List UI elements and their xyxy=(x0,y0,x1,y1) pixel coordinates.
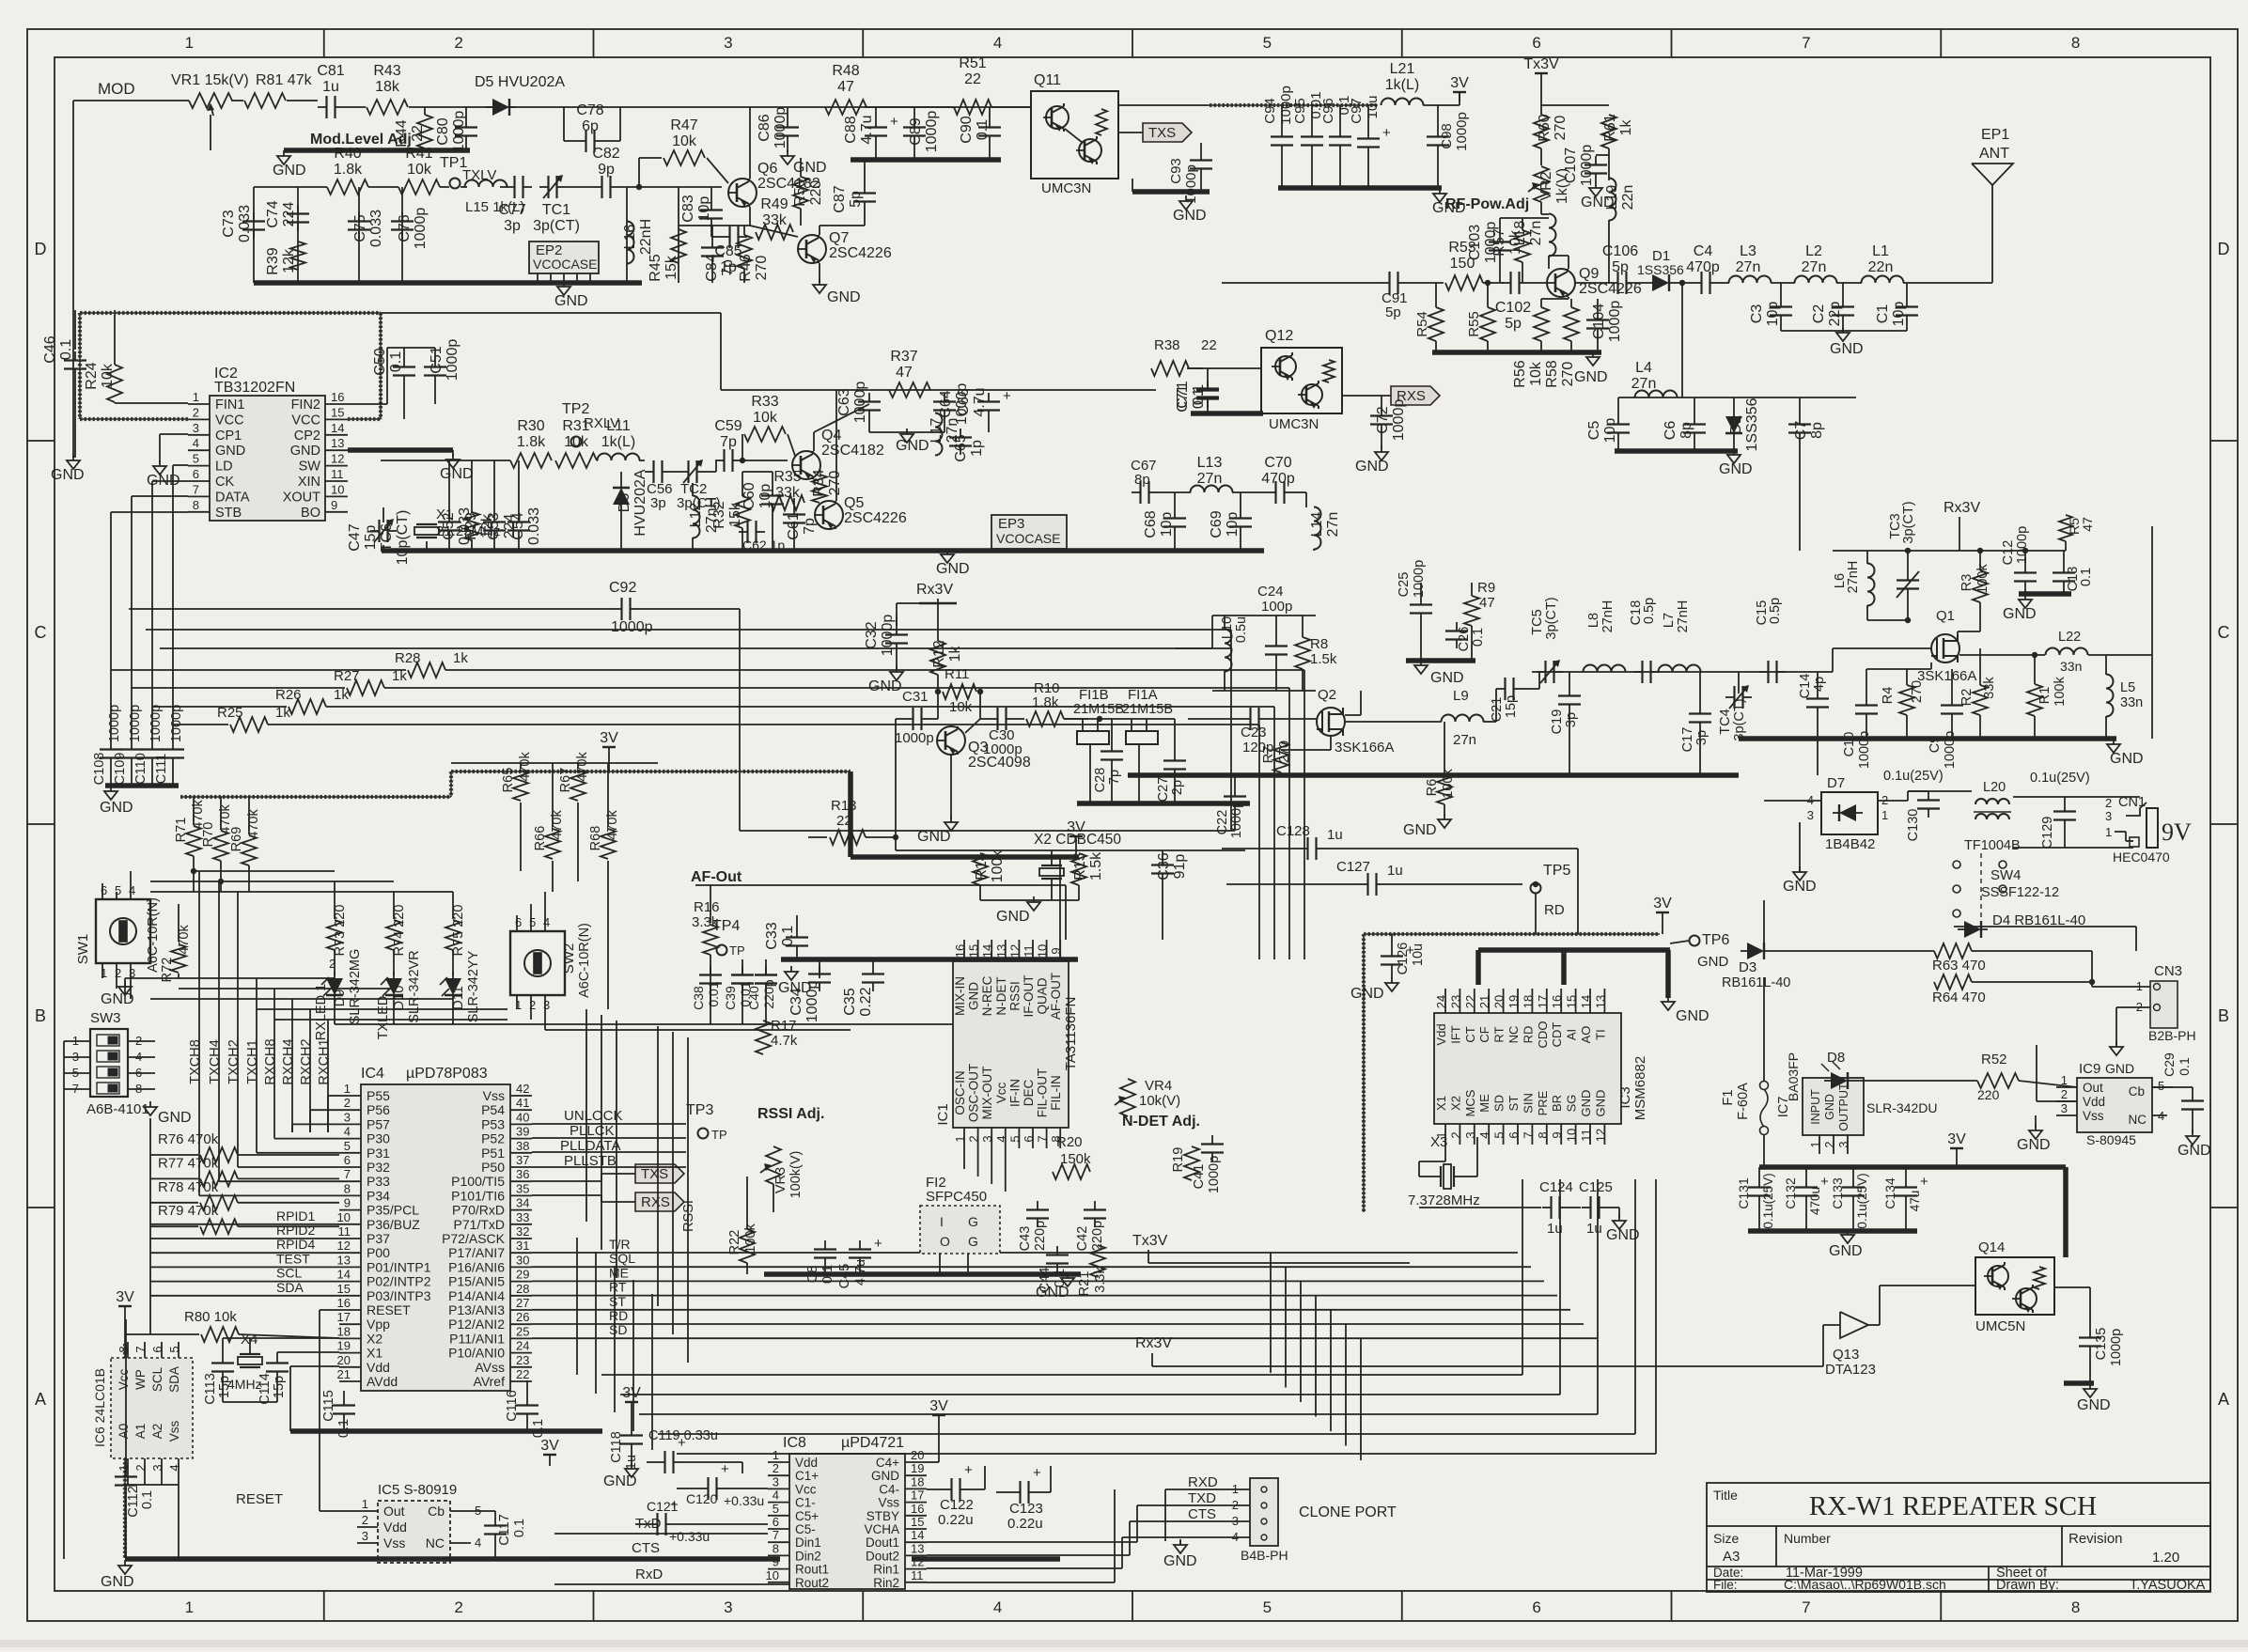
svg-text:NC: NC xyxy=(2129,1113,2147,1127)
svg-text:CLONE PORT: CLONE PORT xyxy=(1299,1504,1397,1520)
svg-text:C: C xyxy=(35,623,47,642)
svg-text:RX-W1 REPEATER SCH: RX-W1 REPEATER SCH xyxy=(1809,1491,2097,1521)
svg-text:CK: CK xyxy=(215,475,234,490)
svg-text:µPD4721: µPD4721 xyxy=(841,1435,904,1451)
svg-text:NC: NC xyxy=(426,1535,445,1551)
svg-text:P54: P54 xyxy=(481,1102,505,1117)
svg-text:C1+: C1+ xyxy=(795,1469,819,1483)
svg-text:30: 30 xyxy=(516,1253,529,1267)
svg-text:35: 35 xyxy=(516,1181,529,1195)
svg-text:8: 8 xyxy=(117,1346,131,1352)
svg-text:C38: C38 xyxy=(691,986,706,1010)
svg-text:GND: GND xyxy=(1579,1090,1593,1117)
svg-text:P12/ANI2: P12/ANI2 xyxy=(448,1317,505,1332)
svg-text:1: 1 xyxy=(515,998,522,1012)
svg-text:TP4: TP4 xyxy=(712,918,740,934)
svg-text:15k: 15k xyxy=(663,255,679,280)
svg-text:L4: L4 xyxy=(1635,360,1652,376)
svg-text:10p: 10p xyxy=(1891,302,1907,327)
svg-text:C3: C3 xyxy=(1749,304,1765,324)
svg-text:N-REC: N-REC xyxy=(980,975,994,1016)
svg-text:TxD: TxD xyxy=(635,1516,662,1532)
svg-text:1000p: 1000p xyxy=(1579,145,1595,187)
svg-text:17: 17 xyxy=(1536,995,1550,1008)
svg-text:TXS: TXS xyxy=(641,1166,668,1182)
svg-text:XIN: XIN xyxy=(298,475,320,490)
svg-text:1000p: 1000p xyxy=(804,981,820,1023)
svg-text:OSC-IN: OSC-IN xyxy=(953,1070,967,1114)
svg-text:FI1A: FI1A xyxy=(1128,687,1158,703)
svg-text:SG: SG xyxy=(1565,1095,1579,1113)
svg-text:SD: SD xyxy=(1492,1095,1506,1112)
svg-text:270: 270 xyxy=(754,256,770,281)
svg-text:5: 5 xyxy=(193,452,199,466)
svg-text:BR: BR xyxy=(1550,1095,1564,1112)
svg-text:Tx3V: Tx3V xyxy=(1523,56,1559,72)
svg-text:STB: STB xyxy=(215,506,242,521)
svg-text:9: 9 xyxy=(1550,1131,1564,1138)
svg-text:Size: Size xyxy=(1713,1531,1739,1546)
svg-text:1: 1 xyxy=(2105,825,2112,839)
svg-text:3p(CT): 3p(CT) xyxy=(1544,597,1559,639)
svg-text:L11: L11 xyxy=(606,418,631,434)
svg-text:GND: GND xyxy=(868,678,902,694)
svg-text:R70: R70 xyxy=(201,822,216,848)
svg-text:224: 224 xyxy=(281,202,297,227)
svg-text:1: 1 xyxy=(193,390,199,404)
svg-text:Rx3V: Rx3V xyxy=(916,582,953,598)
svg-text:Q4: Q4 xyxy=(821,428,841,444)
svg-text:C69: C69 xyxy=(1209,510,1225,538)
svg-text:C68: C68 xyxy=(1143,510,1159,538)
svg-text:C97: C97 xyxy=(1349,98,1365,124)
svg-text:18: 18 xyxy=(911,1474,924,1488)
svg-text:CDT: CDT xyxy=(1550,1022,1564,1048)
svg-text:470u: 470u xyxy=(1808,1187,1822,1215)
svg-text:R19: R19 xyxy=(1171,1147,1186,1173)
svg-text:R65: R65 xyxy=(501,768,516,793)
svg-text:C123: C123 xyxy=(1009,1501,1043,1517)
svg-text:1: 1 xyxy=(185,34,194,52)
svg-text:13: 13 xyxy=(994,944,1008,958)
svg-text:16: 16 xyxy=(331,390,344,404)
svg-text:R50: R50 xyxy=(792,179,808,206)
svg-text:2: 2 xyxy=(529,998,536,1012)
svg-text:4: 4 xyxy=(1232,1530,1239,1544)
svg-text:3: 3 xyxy=(1463,1131,1477,1138)
svg-text:270: 270 xyxy=(1910,680,1925,703)
svg-text:3p(CT): 3p(CT) xyxy=(1901,501,1916,543)
svg-text:12k: 12k xyxy=(281,248,297,273)
svg-text:0.033: 0.033 xyxy=(526,507,542,545)
svg-text:C19: C19 xyxy=(1550,709,1565,735)
svg-text:TP6: TP6 xyxy=(1702,932,1729,948)
svg-text:1B4B42: 1B4B42 xyxy=(1825,836,1875,852)
svg-text:7p: 7p xyxy=(720,259,736,276)
svg-text:IF-IN: IF-IN xyxy=(1007,1079,1022,1107)
svg-text:R45: R45 xyxy=(648,254,663,281)
svg-text:33n: 33n xyxy=(2060,659,2082,674)
svg-text:2SC4226: 2SC4226 xyxy=(829,245,892,261)
svg-text:GND: GND xyxy=(1697,954,1729,970)
svg-text:2: 2 xyxy=(454,1598,462,1616)
svg-text:3: 3 xyxy=(2105,809,2112,823)
svg-text:9: 9 xyxy=(773,1555,779,1569)
svg-text:470k: 470k xyxy=(177,925,192,955)
svg-text:150k: 150k xyxy=(1060,1151,1091,1167)
svg-text:1.8k: 1.8k xyxy=(517,434,546,450)
svg-text:C74: C74 xyxy=(265,200,281,227)
svg-text:X3: X3 xyxy=(1430,1134,1447,1150)
svg-text:C23: C23 xyxy=(1241,725,1267,740)
svg-text:C31: C31 xyxy=(902,689,929,705)
svg-text:10p: 10p xyxy=(1602,418,1618,444)
svg-text:19: 19 xyxy=(1506,995,1521,1008)
svg-text:+: + xyxy=(1003,388,1011,404)
svg-text:GND: GND xyxy=(554,293,588,309)
svg-text:Din1: Din1 xyxy=(795,1535,821,1550)
svg-text:XOUT: XOUT xyxy=(283,490,320,505)
svg-text:R47: R47 xyxy=(670,117,697,133)
svg-text:L12: L12 xyxy=(688,503,704,528)
svg-text:AVdd: AVdd xyxy=(367,1374,398,1389)
svg-text:1: 1 xyxy=(1881,808,1888,822)
svg-text:R60: R60 xyxy=(1537,114,1553,141)
svg-text:IFT: IFT xyxy=(1448,1025,1462,1044)
svg-text:100k(V): 100k(V) xyxy=(788,1151,804,1199)
svg-text:C52: C52 xyxy=(441,512,457,539)
svg-text:R75 220: R75 220 xyxy=(451,905,466,957)
svg-text:R13: R13 xyxy=(831,798,857,814)
svg-text:FIL-OUT: FIL-OUT xyxy=(1036,1068,1050,1118)
svg-text:P53: P53 xyxy=(481,1116,505,1131)
svg-text:14: 14 xyxy=(331,421,344,435)
svg-text:L22: L22 xyxy=(2058,630,2081,645)
svg-text:GND: GND xyxy=(1350,986,1384,1002)
svg-text:220: 220 xyxy=(1977,1087,2000,1102)
svg-text:1000p: 1000p xyxy=(1391,399,1407,442)
svg-text:3p: 3p xyxy=(504,218,521,234)
svg-text:R80 10k: R80 10k xyxy=(184,1309,237,1325)
svg-text:4.7u: 4.7u xyxy=(859,115,875,144)
svg-text:220: 220 xyxy=(808,180,824,206)
svg-text:14: 14 xyxy=(337,1268,351,1282)
svg-text:Tx3V: Tx3V xyxy=(1132,1233,1168,1249)
svg-text:DTA123: DTA123 xyxy=(1825,1362,1876,1378)
svg-text:C90: C90 xyxy=(959,116,975,143)
svg-text:C5-: C5- xyxy=(795,1522,816,1536)
svg-text:SCL: SCL xyxy=(276,1266,302,1281)
svg-text:INPUT: INPUT xyxy=(1809,1089,1822,1125)
svg-text:1: 1 xyxy=(953,1135,967,1142)
svg-text:RXCH1: RXCH1 xyxy=(317,1038,332,1084)
svg-text:0.01: 0.01 xyxy=(706,981,721,1006)
svg-text:13: 13 xyxy=(911,1541,924,1555)
svg-text:A6C-10R(N): A6C-10R(N) xyxy=(577,923,592,998)
svg-text:CF: CF xyxy=(1477,1026,1491,1042)
svg-text:R41: R41 xyxy=(405,146,432,162)
svg-text:GND: GND xyxy=(1403,822,1437,838)
svg-text:7p: 7p xyxy=(720,434,737,450)
svg-text:C46: C46 xyxy=(42,335,58,363)
svg-text:41: 41 xyxy=(516,1096,529,1110)
svg-text:RSSI: RSSI xyxy=(681,1200,696,1232)
svg-text:1: 1 xyxy=(101,966,107,980)
svg-text:MIX-IN: MIX-IN xyxy=(953,976,967,1016)
svg-text:R15: R15 xyxy=(1072,852,1088,880)
svg-text:IC4: IC4 xyxy=(361,1066,384,1082)
svg-text:C117: C117 xyxy=(497,1514,512,1546)
svg-text:0.1: 0.1 xyxy=(512,1519,527,1537)
svg-text:RXCH4: RXCH4 xyxy=(281,1038,296,1084)
svg-text:GND: GND xyxy=(967,982,981,1010)
svg-text:0.22: 0.22 xyxy=(858,987,874,1016)
svg-text:C131: C131 xyxy=(1736,1177,1751,1209)
svg-text:0.1: 0.1 xyxy=(975,119,991,140)
svg-text:1.20: 1.20 xyxy=(2152,1550,2179,1566)
svg-text:P51: P51 xyxy=(481,1145,505,1161)
svg-text:8: 8 xyxy=(193,498,199,512)
svg-text:MOD: MOD xyxy=(98,80,135,98)
svg-text:O: O xyxy=(940,1234,950,1249)
svg-text:C118: C118 xyxy=(609,1431,624,1463)
svg-text:P30: P30 xyxy=(367,1131,390,1146)
svg-text:RPID2: RPID2 xyxy=(276,1223,315,1238)
svg-text:7p: 7p xyxy=(1107,770,1122,785)
svg-text:33: 33 xyxy=(516,1210,529,1224)
svg-text:RD: RD xyxy=(1544,902,1565,918)
svg-text:CP2: CP2 xyxy=(294,429,320,444)
svg-text:5: 5 xyxy=(115,883,121,897)
svg-text:GND: GND xyxy=(158,1110,192,1126)
svg-text:SDA: SDA xyxy=(276,1280,304,1295)
svg-text:RXCH8: RXCH8 xyxy=(263,1038,278,1084)
svg-text:38: 38 xyxy=(516,1139,529,1153)
svg-text:47: 47 xyxy=(837,79,854,95)
svg-text:16: 16 xyxy=(337,1296,351,1310)
svg-text:R14: R14 xyxy=(974,852,990,880)
svg-text:C102: C102 xyxy=(1495,300,1531,316)
svg-text:9: 9 xyxy=(1049,947,1063,954)
svg-text:10k: 10k xyxy=(949,699,973,715)
svg-text:EP1: EP1 xyxy=(1981,127,2009,143)
svg-text:R54: R54 xyxy=(1414,311,1430,337)
svg-text:C60: C60 xyxy=(742,482,757,509)
svg-text:0.22u: 0.22u xyxy=(1007,1516,1043,1532)
svg-text:Vdd: Vdd xyxy=(367,1360,390,1375)
svg-text:P71/TxD: P71/TxD xyxy=(454,1217,505,1232)
svg-text:0.033: 0.033 xyxy=(237,205,253,242)
svg-text:RSSI Adj.: RSSI Adj. xyxy=(757,1106,824,1122)
svg-text:GND: GND xyxy=(51,467,85,483)
svg-text:C1: C1 xyxy=(1875,304,1891,324)
svg-text:P10/ANI0: P10/ANI0 xyxy=(448,1346,505,1361)
svg-text:10k: 10k xyxy=(753,410,778,426)
svg-text:ANT: ANT xyxy=(1979,146,2009,162)
svg-text:CN1: CN1 xyxy=(2118,795,2146,810)
svg-text:3: 3 xyxy=(1232,1514,1239,1528)
svg-text:C89: C89 xyxy=(908,117,924,145)
svg-text:11: 11 xyxy=(1022,944,1036,958)
svg-text:C41: C41 xyxy=(1192,1164,1207,1190)
svg-text:27: 27 xyxy=(516,1296,529,1310)
svg-text:8p: 8p xyxy=(1678,422,1694,439)
svg-text:12: 12 xyxy=(1593,1129,1607,1142)
svg-text:C112: C112 xyxy=(126,1486,141,1518)
svg-text:C4: C4 xyxy=(1694,243,1713,259)
svg-text:C120: C120 xyxy=(686,1491,718,1506)
svg-text:Din2: Din2 xyxy=(795,1549,821,1563)
svg-text:X2: X2 xyxy=(367,1331,382,1346)
svg-text:100k: 100k xyxy=(1975,564,1990,594)
svg-text:0.1: 0.1 xyxy=(140,1490,155,1509)
svg-text:2: 2 xyxy=(362,1513,368,1527)
svg-text:3p: 3p xyxy=(1564,712,1579,727)
svg-text:1k: 1k xyxy=(275,705,290,721)
svg-text:TXCH4: TXCH4 xyxy=(208,1039,223,1084)
svg-text:100k: 100k xyxy=(990,849,1006,883)
svg-text:C109: C109 xyxy=(113,753,128,786)
svg-text:1.8k: 1.8k xyxy=(334,162,363,178)
svg-text:3V: 3V xyxy=(929,1398,948,1414)
svg-text:IC3: IC3 xyxy=(1617,1086,1633,1108)
svg-text:GND: GND xyxy=(290,444,320,459)
svg-text:OSC-OUT: OSC-OUT xyxy=(967,1064,981,1122)
svg-text:7: 7 xyxy=(1802,1598,1810,1616)
svg-text:C94: C94 xyxy=(1262,98,1278,124)
svg-text:1000p: 1000p xyxy=(773,107,788,149)
svg-text:C25: C25 xyxy=(1397,572,1412,598)
svg-text:3p: 3p xyxy=(650,495,666,511)
svg-text:L21: L21 xyxy=(1390,61,1415,77)
svg-text:1: 1 xyxy=(1232,1482,1239,1496)
svg-text:100k: 100k xyxy=(2053,677,2068,707)
svg-text:A0: A0 xyxy=(117,1424,131,1440)
svg-text:C116: C116 xyxy=(505,1390,520,1422)
svg-text:GND: GND xyxy=(827,289,861,305)
svg-text:SLR-342YY: SLR-342YY xyxy=(466,950,481,1022)
svg-text:P01/INTP1: P01/INTP1 xyxy=(367,1259,431,1274)
svg-text:27nH: 27nH xyxy=(1846,561,1861,594)
svg-text:R12: R12 xyxy=(931,640,947,667)
svg-text:Vcc: Vcc xyxy=(795,1482,817,1496)
svg-text:GND: GND xyxy=(896,438,929,454)
svg-text:10: 10 xyxy=(766,1568,779,1582)
svg-text:8p: 8p xyxy=(1809,422,1825,439)
svg-text:GND: GND xyxy=(1355,459,1389,475)
svg-text:µPD78P083: µPD78P083 xyxy=(406,1066,488,1082)
svg-text:EP3: EP3 xyxy=(998,516,1024,532)
svg-text:1u: 1u xyxy=(1387,863,1403,879)
svg-text:47: 47 xyxy=(2080,517,2095,532)
svg-text:6: 6 xyxy=(150,1346,164,1352)
svg-text:Vdd: Vdd xyxy=(383,1520,407,1535)
svg-text:AF-Out: AF-Out xyxy=(691,869,742,885)
svg-text:1000p: 1000p xyxy=(1412,560,1427,598)
svg-text:Vdd: Vdd xyxy=(795,1456,818,1470)
svg-text:4: 4 xyxy=(993,34,1002,52)
svg-text:C65: C65 xyxy=(953,434,969,461)
svg-text:GND: GND xyxy=(917,829,951,845)
svg-text:1000p: 1000p xyxy=(451,111,467,153)
svg-text:IF-OUT: IF-OUT xyxy=(1022,975,1036,1018)
svg-text:3: 3 xyxy=(980,1135,994,1142)
svg-text:RSSI: RSSI xyxy=(1007,981,1022,1011)
svg-text:RXD: RXD xyxy=(1188,1474,1218,1490)
svg-text:Cb: Cb xyxy=(428,1504,445,1519)
svg-text:15p: 15p xyxy=(272,1376,287,1398)
svg-text:1k: 1k xyxy=(1618,119,1634,136)
svg-text:P37: P37 xyxy=(367,1231,390,1246)
svg-text:5: 5 xyxy=(344,1139,351,1153)
svg-text:STBY: STBY xyxy=(866,1509,899,1523)
svg-text:C7: C7 xyxy=(1793,421,1809,441)
svg-text:R67: R67 xyxy=(558,768,573,793)
svg-text:15: 15 xyxy=(331,405,344,419)
svg-text:3V: 3V xyxy=(622,1385,641,1401)
svg-text:1: 1 xyxy=(2061,1073,2068,1087)
svg-text:R81 47k: R81 47k xyxy=(256,72,313,88)
svg-text:1u: 1u xyxy=(322,79,339,95)
svg-text:P14/ANI4: P14/ANI4 xyxy=(448,1288,505,1303)
svg-text:SLR-342VR: SLR-342VR xyxy=(407,950,422,1022)
svg-text:TP: TP xyxy=(729,943,745,958)
svg-text:D: D xyxy=(2218,240,2230,258)
svg-text:+: + xyxy=(721,1461,729,1477)
svg-text:C132: C132 xyxy=(1783,1177,1798,1209)
svg-text:1000p: 1000p xyxy=(128,705,143,742)
svg-text:1.5k: 1.5k xyxy=(1310,651,1337,667)
svg-text:P17/ANI7: P17/ANI7 xyxy=(448,1245,505,1260)
svg-text:TXCH2: TXCH2 xyxy=(226,1039,242,1084)
svg-text:15p: 15p xyxy=(1504,695,1519,718)
svg-text:22p: 22p xyxy=(1827,302,1843,327)
svg-text:27nH: 27nH xyxy=(1600,600,1616,633)
svg-text:L2: L2 xyxy=(1805,243,1822,259)
svg-text:IC1: IC1 xyxy=(935,1103,951,1125)
svg-text:CTS: CTS xyxy=(1188,1506,1216,1522)
svg-text:L1: L1 xyxy=(1872,243,1889,259)
svg-text:12: 12 xyxy=(911,1555,924,1569)
svg-text:MIX-OUT: MIX-OUT xyxy=(980,1067,994,1120)
svg-text:3: 3 xyxy=(129,966,135,980)
svg-text:22: 22 xyxy=(964,71,981,87)
svg-text:TP3: TP3 xyxy=(686,1102,713,1118)
svg-text:RPID4: RPID4 xyxy=(276,1237,315,1252)
svg-text:UMC3N: UMC3N xyxy=(1041,180,1091,196)
svg-text:5p: 5p xyxy=(1612,259,1629,275)
svg-text:F-60A: F-60A xyxy=(1736,1083,1751,1120)
svg-text:8: 8 xyxy=(344,1181,351,1195)
svg-text:GND: GND xyxy=(1783,879,1817,895)
svg-text:GND: GND xyxy=(2003,606,2037,622)
svg-text:GND: GND xyxy=(1173,208,1207,224)
svg-text:SLR-342MG: SLR-342MG xyxy=(348,949,363,1025)
svg-text:P13/ANI3: P13/ANI3 xyxy=(448,1302,505,1317)
svg-text:R69: R69 xyxy=(229,827,244,852)
svg-text:1: 1 xyxy=(2136,979,2143,993)
svg-text:Out: Out xyxy=(383,1504,405,1519)
svg-text:R27: R27 xyxy=(334,668,360,684)
svg-text:ST: ST xyxy=(609,1294,626,1309)
svg-text:4: 4 xyxy=(475,1535,481,1550)
svg-text:1: 1 xyxy=(362,1497,368,1511)
svg-text:17: 17 xyxy=(911,1488,924,1503)
svg-text:RB161L-40: RB161L-40 xyxy=(1722,975,1790,990)
svg-text:C64: C64 xyxy=(938,390,954,417)
svg-text:C71: C71 xyxy=(1175,384,1191,412)
svg-text:C33: C33 xyxy=(764,922,780,949)
